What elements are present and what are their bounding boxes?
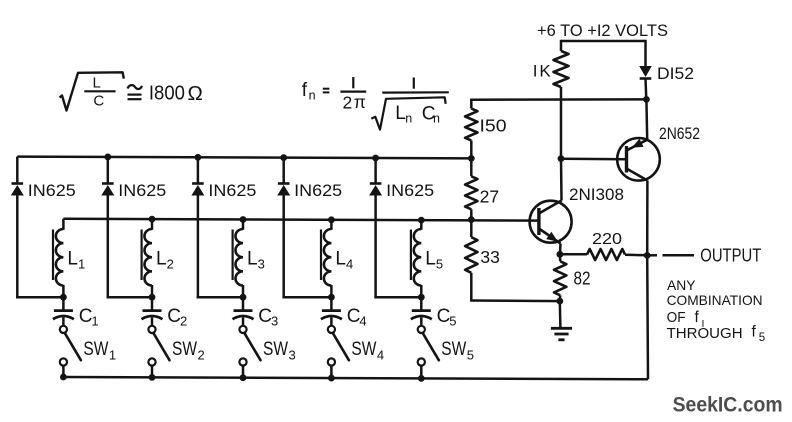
wire switch to bottom bus 4 [330, 366, 333, 380]
switch SW5 [418, 326, 425, 333]
wire switch to bottom bus 3 [242, 366, 245, 379]
svg-text:SW: SW [441, 339, 466, 360]
svg-text:IN625: IN625 [28, 181, 76, 200]
svg-text:COMBINATION: COMBINATION [667, 292, 763, 308]
wire node to 27 [470, 158, 473, 176]
wire junction to capacitor C4 [330, 297, 333, 310]
svg-text:DI52: DI52 [657, 64, 694, 83]
inductor L1 [56, 229, 63, 286]
node L-bus branch 3 [240, 216, 247, 223]
wire diode D1 column [16, 157, 19, 184]
formula2 numerator 1 (second) [413, 78, 415, 89]
capacitor C2 [143, 309, 162, 312]
formula sqrt(L/C) approx 1800 ohms : radical [60, 72, 124, 110]
svg-text:IN625: IN625 [386, 181, 434, 200]
diode 3 1N625 [192, 182, 204, 185]
resistor 33 [465, 237, 477, 273]
svg-text:ANY: ANY [667, 277, 696, 293]
switch SW2 [148, 326, 155, 333]
node junction L3 C3 [240, 294, 247, 301]
svg-text:SW: SW [83, 339, 108, 360]
transistor Q2 2N652 [617, 138, 660, 181]
svg-text:3: 3 [289, 348, 296, 363]
wire junction row branch 2 [107, 296, 152, 299]
wire output stub [647, 254, 657, 257]
approx-equal sign [128, 85, 143, 89]
svg-text:33: 33 [480, 247, 499, 267]
wire branch 1 coil to junction [62, 285, 65, 297]
node L-bus branch 4 [328, 216, 335, 223]
svg-text:SW: SW [172, 339, 197, 360]
emitter diagonal Q2 [627, 140, 648, 151]
formula2 bar 1 [340, 90, 366, 92]
node 82 / 33 rail / ground [556, 298, 563, 305]
wire junction row branch 1 [16, 296, 63, 299]
wire Q2 collector to output node [646, 181, 649, 256]
wire capacitor to switch SW3 [242, 318, 245, 326]
resistor 1K [554, 51, 569, 87]
wire branch 3 vertical top [242, 219, 245, 229]
node L-bus branch 2 [149, 216, 156, 223]
svg-text:220: 220 [592, 231, 622, 248]
diode 5 1N625 [370, 182, 382, 185]
wire 33 bottom to ground rail [470, 273, 473, 301]
switch SW3 [239, 326, 246, 333]
collector diagonal Q1 [539, 201, 562, 214]
svg-text:L: L [93, 74, 101, 91]
wire output node down to bottom bus [646, 255, 649, 379]
inductor-top bus [63, 219, 539, 221]
svg-text:2: 2 [343, 92, 353, 112]
svg-text:C: C [167, 306, 181, 327]
capacitor C4 [322, 309, 341, 312]
diode 1 1N625 [12, 182, 24, 185]
wire node to 33 [470, 220, 473, 238]
wire branch 1 vertical top [62, 219, 65, 230]
svg-text:5: 5 [759, 332, 765, 344]
svg-text:1: 1 [91, 314, 98, 329]
wire junction row branch 3 [197, 296, 243, 299]
inductor L2 [145, 229, 152, 286]
svg-text:THROUGH: THROUGH [667, 326, 743, 342]
node top bus / diode 4 [280, 154, 287, 161]
inductor L5 [414, 229, 421, 286]
svg-text:I50: I50 [480, 116, 507, 136]
svg-text:IN625: IN625 [294, 181, 342, 200]
svg-text:82: 82 [574, 269, 591, 289]
node junction L5 C5 [418, 294, 425, 301]
node top bus / diode 2 [104, 154, 111, 161]
formula2 bar 2 [382, 91, 449, 93]
wire 1K bottom down to node [560, 87, 563, 159]
svg-text:f: f [695, 309, 700, 326]
wire 82 to ground node [559, 295, 562, 301]
svg-text:3: 3 [258, 257, 265, 272]
wire diode D3 column [197, 157, 200, 183]
wire capacitor to switch SW2 [151, 318, 154, 326]
node bottom bus branch 2 [149, 374, 156, 381]
svg-text:4: 4 [359, 314, 366, 329]
node L-bus branch 5 [418, 217, 425, 224]
svg-text:SW: SW [263, 339, 288, 360]
svg-text:OUTPUT: OUTPUT [700, 245, 761, 265]
wire node to ground [559, 301, 562, 328]
node 27/33/L-bus [468, 216, 475, 223]
svg-text:n: n [405, 111, 412, 125]
core bar L1 [52, 230, 54, 281]
node junction L1 C1 [60, 294, 67, 301]
svg-text:Ω: Ω [188, 82, 203, 105]
svg-text:L: L [67, 249, 78, 270]
svg-text:I800: I800 [149, 81, 185, 104]
wire branch 4 coil to junction [330, 285, 333, 297]
wire branch 5 coil to junction [420, 285, 423, 297]
inductor L4 [324, 229, 331, 286]
top bus [17, 157, 471, 159]
wire switch to bottom bus 2 [151, 366, 154, 379]
node top bus / diode 3 [195, 154, 202, 161]
wire 27 bottom to node [470, 209, 473, 219]
emitter arrow Q2 (PNP, points to base) [632, 139, 644, 148]
svg-text:L: L [156, 249, 167, 270]
svg-text:IN625: IN625 [208, 181, 256, 200]
capacitor C5 [412, 309, 431, 312]
wire 150 bottom to node [470, 141, 473, 159]
node D152 / 150 rail / Q2 emitter [643, 96, 650, 103]
node junction L2 C2 [149, 294, 156, 301]
node top bus / diode 5 [372, 155, 379, 162]
wire switch to bottom bus 5 [420, 366, 423, 380]
node output [644, 252, 651, 259]
wire junction row branch 5 [374, 296, 421, 299]
formula2 radical [371, 97, 445, 129]
ground [551, 327, 572, 330]
emitter arrow Q1 (NPN, points out) [546, 232, 558, 242]
wire node to 220 [560, 253, 587, 256]
svg-text:C: C [347, 306, 361, 327]
core bar L5 [410, 230, 412, 281]
wire junction to capacitor C1 [62, 297, 65, 310]
node Q1 emitter / 220 / 82 [557, 251, 564, 258]
svg-text:π: π [354, 92, 366, 112]
wire diode D5 column [374, 158, 377, 183]
wire junction row branch 4 [283, 296, 332, 299]
svg-text:2: 2 [167, 257, 174, 272]
node bottom bus branch 3 [240, 374, 247, 381]
wire supply top rail [561, 40, 646, 43]
node 150/27/top-bus [468, 155, 475, 162]
wire switch to bottom bus 1 [62, 366, 65, 379]
wire diode D4 column [282, 158, 285, 184]
wire junction to capacitor C2 [151, 297, 154, 310]
diode 4 1N625 [278, 182, 290, 185]
wire rail D152 to 150 [470, 98, 646, 101]
svg-text:1: 1 [78, 257, 85, 272]
svg-text:n: n [433, 111, 440, 125]
inductor L3 [236, 229, 243, 286]
node junction L4 C4 [328, 294, 335, 301]
wire node to 82 [559, 254, 562, 261]
resistor 27 [465, 176, 477, 209]
capacitor C1 [54, 309, 73, 312]
svg-text:C: C [79, 306, 93, 327]
svg-text:4: 4 [346, 257, 353, 272]
svg-text:27: 27 [480, 186, 499, 206]
switch SW4 [328, 326, 335, 333]
svg-text:2N652: 2N652 [659, 124, 700, 143]
svg-text:2: 2 [180, 314, 187, 329]
resistor 220 [587, 249, 625, 260]
svg-text:5: 5 [449, 314, 456, 329]
node bottom bus branch 5 [418, 375, 425, 382]
node bottom bus branch 1 [60, 374, 67, 381]
transistor Q1 2N1308 [530, 201, 572, 243]
wire branch 3 coil to junction [242, 285, 245, 297]
svg-text:1: 1 [109, 348, 116, 363]
svg-text:IK: IK [533, 62, 553, 81]
svg-text:L: L [395, 103, 406, 124]
wire ground rail 33 to 82 [470, 299, 559, 302]
svg-text:OF: OF [667, 310, 686, 326]
svg-text:4: 4 [377, 348, 384, 363]
svg-text:L: L [425, 249, 436, 270]
core bar L3 [232, 230, 234, 281]
svg-text:C: C [437, 306, 451, 327]
wire to 1K [560, 40, 563, 51]
resistor 150 [465, 109, 477, 141]
wire junction to capacitor C5 [420, 297, 423, 310]
svg-text:f: f [302, 80, 308, 101]
svg-text:3: 3 [271, 314, 278, 329]
bottom bus [63, 377, 648, 379]
formula2 numerator 1 [352, 77, 354, 88]
wire to D152 [644, 40, 647, 66]
svg-text:L: L [247, 249, 258, 270]
svg-text:2: 2 [198, 348, 205, 363]
wire capacitor to switch SW4 [330, 318, 333, 326]
node 1K / Q1 collector / Q2 base [558, 155, 565, 162]
wire capacitor to switch SW5 [420, 318, 423, 326]
svg-text:+6 TO +I2 VOLTS: +6 TO +I2 VOLTS [537, 21, 668, 40]
core bar L2 [141, 230, 143, 281]
svg-text:SW: SW [351, 339, 376, 360]
base bar Q1 [537, 208, 540, 235]
svg-text:IN625: IN625 [118, 181, 166, 200]
svg-text:2NI308: 2NI308 [569, 185, 624, 204]
node bottom bus branch 4 [328, 375, 335, 382]
wire branch 2 coil to junction [151, 285, 154, 297]
resistor 82 [554, 261, 566, 295]
svg-text:SeekIC.com: SeekIC.com [673, 393, 783, 417]
svg-text:5: 5 [436, 257, 443, 272]
wire 150 top corner [470, 100, 473, 109]
wire branch 4 vertical top [330, 220, 333, 230]
svg-text:f: f [752, 323, 757, 340]
svg-text:C: C [258, 306, 272, 327]
wire 220 to output node [625, 254, 647, 257]
wire branch 5 vertical top [420, 220, 423, 230]
wire node down to Q1 collector [560, 159, 563, 201]
wire junction to capacitor C3 [242, 297, 245, 310]
diode D152 [639, 66, 652, 77]
emitter diagonal Q1 [539, 229, 561, 244]
svg-text:5: 5 [467, 348, 474, 363]
base bar Q2 [625, 146, 628, 173]
formula1 fraction bar [84, 90, 115, 92]
wire branch 2 vertical top [151, 219, 154, 230]
wire diode D2 column [107, 157, 110, 184]
capacitor C3 [234, 309, 253, 312]
wire capacitor to switch SW1 [62, 318, 65, 326]
svg-text:C: C [93, 93, 104, 110]
wire D152 to node [644, 79, 647, 100]
formula2 equals [323, 88, 330, 90]
svg-text:L: L [335, 249, 346, 270]
wire Q1 emitter to node [559, 244, 562, 255]
switch SW1 [60, 326, 67, 333]
diode 2 1N625 [102, 182, 114, 185]
wire node to 2N652 emitter [645, 99, 648, 139]
collector diagonal Q2 [627, 169, 648, 181]
svg-text:n: n [309, 88, 316, 102]
core bar L4 [320, 230, 322, 281]
wire node to Q2 base [561, 158, 627, 161]
